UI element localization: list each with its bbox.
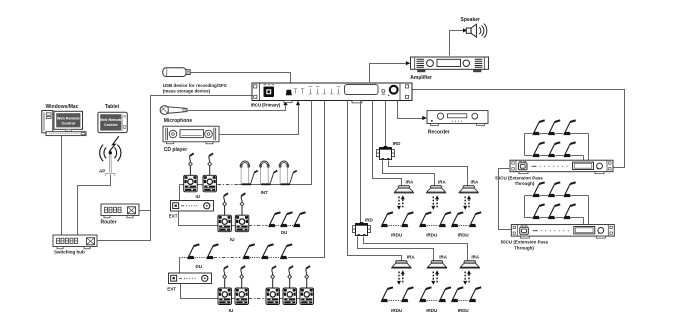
wire: row B chain segments <box>232 225 236 227</box>
IRDU pair g2-2 mic a <box>419 287 431 302</box>
IU gooseneck mic row D5 <box>305 266 310 288</box>
svg-text:IRCU (Primary): IRCU (Primary) <box>251 102 281 107</box>
wire: 50CU group1 row1 links <box>525 134 589 161</box>
computer keyboard tray <box>46 129 86 135</box>
IR beam arrows group2 col2 <box>431 270 439 285</box>
svg-text:Router: Router <box>101 220 117 226</box>
50CU g2 mic r2-3 <box>563 204 575 219</box>
svg-text:AP: AP <box>99 169 105 174</box>
DU unit row B2 <box>280 212 292 227</box>
svg-text:Tablet: Tablet <box>105 104 120 110</box>
svg-text:DU: DU <box>196 264 203 269</box>
wire: 50CU group2 row2 links <box>525 218 584 225</box>
wire: row D chain segments <box>232 298 301 300</box>
IU unit row D1 <box>218 288 232 305</box>
svg-text:EXT: EXT <box>169 214 178 219</box>
IU unit row B1 <box>218 215 232 232</box>
svg-text:EXT: EXT <box>167 286 176 291</box>
wire: EXT down to row B <box>179 211 219 226</box>
IU gooseneck mic row B2 <box>240 193 245 215</box>
dotted link g2-3 <box>459 300 469 302</box>
svg-text:IRA: IRA <box>438 179 447 184</box>
wire: IRCU to 50CU chain <box>413 90 625 168</box>
computer monitor with Web Remote Control screen <box>54 111 83 129</box>
wire: IRCU down to IRA4 (group 2 left radiator) <box>348 101 402 261</box>
wire: IRD1 to IRA3 <box>389 161 468 186</box>
wire: IRCU down to IRD2 <box>360 101 362 223</box>
EXT extension unit row A <box>171 201 214 212</box>
wire: USB device to IRCU <box>191 73 291 85</box>
IRA radiator 5 <box>427 261 447 268</box>
svg-text:IRDU: IRDU <box>391 308 402 313</box>
IU unit row D4 <box>283 288 297 305</box>
IU unit row B2 <box>235 215 249 232</box>
IU gooseneck mic row A1 <box>189 153 194 175</box>
IU unit row D2 <box>235 288 249 305</box>
50CU g1 mic r2-2 <box>548 142 560 157</box>
svg-text:IRA: IRA <box>407 255 416 260</box>
wire: 50CU1 to 50CU2 daisy chain <box>499 169 512 230</box>
wire: amplifier to speaker <box>450 31 464 56</box>
IU gooseneck mic row D3 <box>271 266 276 288</box>
EXT extension unit row C <box>169 273 212 284</box>
DU unit row C4 <box>261 244 273 259</box>
USB device icon <box>163 68 190 77</box>
50CU g2 mic r1-1 <box>532 182 544 197</box>
wire: row A left down to EXT <box>179 185 181 201</box>
wire: IRD2 to IRA6 <box>364 237 468 261</box>
arrowhead up into IRCU bottom <box>283 101 287 106</box>
speaker icon <box>466 24 487 38</box>
svg-text:(mass storage device): (mass storage device) <box>163 89 211 94</box>
DU unit row C3 <box>243 244 255 259</box>
50CU g2 mic r1-2 <box>548 182 560 197</box>
DU unit row C2 <box>206 244 218 259</box>
IRDU pair g1-2 mic b <box>439 212 451 227</box>
svg-text:IRDU: IRDU <box>426 232 437 237</box>
svg-text:Switching hub: Switching hub <box>54 250 85 255</box>
IRDU pair g1-1 mic a <box>381 212 393 227</box>
recorder <box>427 111 488 126</box>
IRCU main rack unit <box>252 83 412 103</box>
svg-text:Web Remote: Web Remote <box>57 117 80 121</box>
IU gooseneck mic row D2 <box>240 266 245 288</box>
wire: 50CU group1 mic bracket <box>524 134 526 156</box>
IR beam arrows group1 col1 <box>397 195 405 210</box>
IR beam arrows group1 col3 <box>463 195 471 210</box>
DU unit row B3 <box>293 212 305 227</box>
svg-text:IRA: IRA <box>439 255 448 260</box>
IR beam arrows group2 col1 <box>397 270 405 285</box>
AP access point antenna <box>100 136 121 176</box>
svg-text:Speaker: Speaker <box>461 17 481 23</box>
IR beam arrows group2 col3 <box>463 270 471 285</box>
svg-text:IU: IU <box>229 308 234 313</box>
router <box>101 204 139 218</box>
50CU g2 mic r1-3 <box>563 182 575 197</box>
wire: router to trunk <box>140 210 151 212</box>
wire: IRCU down to IRA1 (group 1 left radiator) <box>373 101 402 186</box>
IR beam arrows group1 col2 <box>431 195 439 210</box>
IRA radiator 3 <box>459 186 479 193</box>
INT interpreter unit 1 <box>240 161 258 185</box>
svg-text:Through): Through) <box>514 246 534 251</box>
IRDU pair g2-3 mic a <box>451 287 463 302</box>
IU unit row A2 <box>203 175 217 192</box>
wire: AP to switching hub <box>78 175 111 236</box>
wire: EXT down to row D <box>181 284 219 299</box>
IRA radiator 1 <box>394 186 414 193</box>
DU unit row C1 <box>187 244 199 259</box>
IRDU pair g2-3 mic b <box>469 287 481 302</box>
computer tower <box>42 111 53 133</box>
50CU rack unit 1 <box>510 160 613 174</box>
DU unit row C5 <box>280 244 292 259</box>
svg-text:IRD: IRD <box>393 141 402 146</box>
DU unit row B1 <box>268 212 280 227</box>
svg-text:IRDU: IRDU <box>391 232 402 237</box>
dotted link g1-2 <box>427 225 439 227</box>
wire: row B dashed gap <box>249 225 268 227</box>
svg-text:IRDU: IRDU <box>426 308 437 313</box>
arrowhead up into IRCU bottom <box>296 101 300 106</box>
wire: IRCU to amplifier <box>370 64 406 84</box>
IU unit row A1 <box>184 175 198 192</box>
IRD distributor 2 <box>353 222 371 236</box>
wire: IRCU down to INT row <box>289 101 312 185</box>
svg-text:IU: IU <box>230 237 235 242</box>
wire: row A chain solid segments <box>180 184 289 186</box>
wire: row C dotted links <box>180 257 280 259</box>
IRA radiator 4 <box>391 261 411 268</box>
wire: row B dotted links between DU <box>276 225 294 227</box>
wire: row A dashed gap <box>218 184 239 186</box>
svg-text:IRDU: IRDU <box>458 308 469 313</box>
IRDU pair g1-1 mic b <box>401 212 413 227</box>
INT interpreter unit 3 <box>279 161 297 185</box>
wire: 50CU group1 row2 links <box>525 156 584 161</box>
IU unit row D3 <box>266 288 280 305</box>
IRA radiator 6 <box>460 261 480 268</box>
IU gooseneck mic row D4 <box>288 266 293 288</box>
microphone icon <box>160 106 187 115</box>
svg-text:50CU (Extension Pass: 50CU (Extension Pass <box>495 176 543 181</box>
svg-text:IRDU: IRDU <box>458 232 469 237</box>
svg-text:IRA: IRA <box>471 255 480 260</box>
wire: microphone to IRCU <box>188 106 286 111</box>
svg-text:USB device for recording/SFX: USB device for recording/SFX <box>163 83 227 88</box>
IRDU pair g1-3 mic a <box>451 212 463 227</box>
50CU g1 mic r1-1 <box>532 120 544 135</box>
wire: CD player to IRCU <box>220 106 299 135</box>
svg-text:Amplifier: Amplifier <box>410 75 432 81</box>
wire: computer to switching hub <box>61 135 63 236</box>
svg-text:IU: IU <box>195 194 200 199</box>
wire: 50CU group2 mic bracket <box>524 196 526 218</box>
CD player <box>163 126 219 144</box>
svg-text:Through): Through) <box>515 181 535 186</box>
50CU g2 mic r2-1 <box>532 204 544 219</box>
wire: IRCU to recorder <box>398 101 423 119</box>
dotted link g1-3 <box>459 225 469 227</box>
switching hub <box>53 235 97 249</box>
arrowhead into speaker <box>463 28 468 32</box>
50CU g1 mic r1-2 <box>548 120 560 135</box>
IRD distributor 1 <box>377 146 395 160</box>
50CU g2 mic r2-2 <box>548 204 560 219</box>
IU unit row D5 <box>300 288 314 305</box>
dotted link g1-1 <box>389 225 401 227</box>
svg-text:IRA: IRA <box>406 179 415 184</box>
IRDU pair g2-1 mic b <box>401 287 413 302</box>
IRA radiator 2 <box>426 186 446 193</box>
IU gooseneck mic row B1 <box>223 193 228 215</box>
arrowhead into recorder <box>422 116 427 120</box>
svg-text:50CU (Extension Pass: 50CU (Extension Pass <box>501 239 549 244</box>
IU gooseneck mic row D1 <box>223 266 228 288</box>
wire: row C dashed gap <box>214 257 241 259</box>
svg-text:IRA: IRA <box>471 179 480 184</box>
INT interpreter unit 2 <box>259 161 277 185</box>
svg-text:Web Remote: Web Remote <box>99 118 122 122</box>
svg-text:Recorder: Recorder <box>428 129 450 135</box>
svg-text:Windows/Mac: Windows/Mac <box>45 104 78 110</box>
IRDU pair g2-1 mic a <box>381 287 393 302</box>
dotted link g2-1 <box>389 300 401 302</box>
50CU g1 mic r1-3 <box>563 120 575 135</box>
wire: 50CU group2 row1 links <box>525 196 589 225</box>
wire: IRD1 to IRA2 <box>383 161 435 186</box>
dotted link g2-2 <box>427 300 439 302</box>
svg-text:Microphone: Microphone <box>164 118 193 124</box>
svg-text:DU: DU <box>281 230 288 235</box>
IU gooseneck mic row A2 <box>208 153 213 175</box>
arrowhead into amplifier <box>406 61 411 65</box>
tablet with Web Remote Control screen <box>98 112 127 132</box>
wire: row C left down to EXT row C <box>179 258 181 274</box>
arrowhead into IRCU top <box>288 84 292 88</box>
svg-text:Control: Control <box>62 122 76 126</box>
svg-text:IRD: IRD <box>365 218 374 223</box>
IRDU pair g1-3 mic b <box>469 212 481 227</box>
wire: IRD2 to IRA5 <box>358 237 434 261</box>
wire: row D dashed gap <box>249 298 267 300</box>
wire: IRCU down to row C <box>288 101 325 258</box>
svg-text:INT: INT <box>261 190 269 195</box>
wire: switching hub to IRCU trunk <box>98 96 253 241</box>
wire: IRCU down to IRD1 <box>385 101 387 147</box>
svg-text:Control: Control <box>104 123 118 127</box>
50CU g1 mic r2-1 <box>532 142 544 157</box>
svg-text:CD player: CD player <box>164 147 187 153</box>
amplifier <box>411 57 489 72</box>
50CU rack unit 2 <box>511 225 614 239</box>
IRDU pair g1-2 mic a <box>419 212 431 227</box>
50CU g1 mic r2-3 <box>563 142 575 157</box>
IRDU pair g2-2 mic b <box>439 287 451 302</box>
